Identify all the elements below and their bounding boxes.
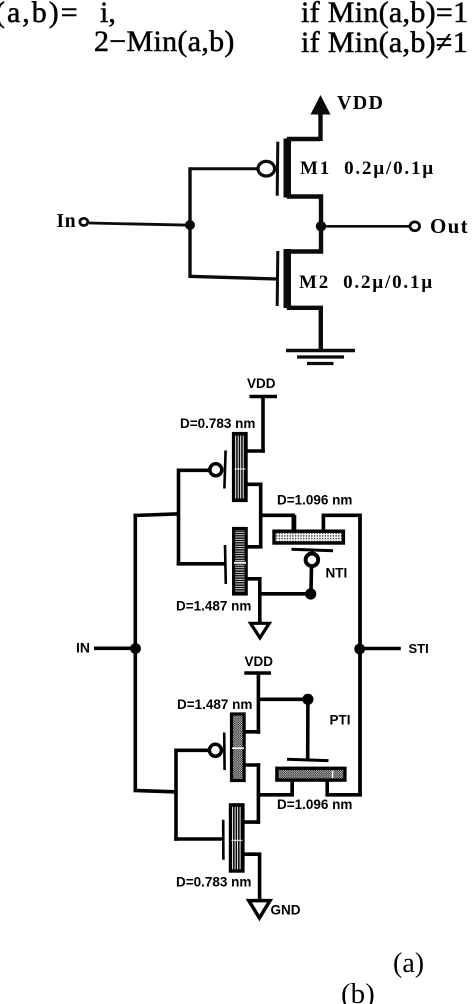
wire Q1 drain stub bbox=[246, 482, 263, 486]
svg-text:if Min(a,b)=1: if Min(a,b)=1 bbox=[301, 0, 468, 29]
Out terminal circle bbox=[410, 222, 420, 231]
transistor Q4 CNT channel D=0.783nm lower bbox=[230, 805, 243, 871]
svg-text:D=0.783 nm: D=0.783 nm bbox=[176, 874, 251, 889]
wire M2 source stub bbox=[289, 305, 321, 351]
svg-text:IN: IN bbox=[76, 640, 90, 656]
svg-text:Out: Out bbox=[430, 214, 469, 238]
svg-text:VDD: VDD bbox=[337, 92, 384, 114]
ground symbol bbox=[286, 349, 355, 353]
wire M1 drain stub bbox=[289, 194, 321, 226]
pass transistor PTI channel D=1.096nm bbox=[277, 768, 345, 780]
wire VDD stem bbox=[318, 112, 322, 141]
wire Q3 drain stub bbox=[244, 763, 260, 767]
svg-text:D=0.783 nm: D=0.783 nm bbox=[180, 416, 255, 431]
transistor M2 channel bar bbox=[284, 249, 292, 308]
transistor M2 gate bar bbox=[276, 251, 280, 306]
wire branch VDD to PTI gate bbox=[257, 697, 308, 701]
svg-text:D=1.487 nm: D=1.487 nm bbox=[177, 697, 252, 712]
svg-text:M2 0.2µ/0.1µ: M2 0.2µ/0.1µ bbox=[299, 272, 434, 293]
svg-text:VDD: VDD bbox=[245, 654, 274, 669]
wire bubble to input tree lower bbox=[176, 748, 210, 752]
wire Q4 drain stub bbox=[244, 820, 260, 824]
wire NTI left top stub bbox=[293, 515, 297, 530]
pass transistor NTI channel D=1.096nm bbox=[274, 531, 343, 543]
wire M2 gate bbox=[189, 276, 278, 279]
svg-text:PTI: PTI bbox=[330, 713, 351, 728]
wire In node to M1 bubble bbox=[190, 167, 258, 170]
wire branch to NTI left bbox=[259, 515, 293, 531]
In terminal circle bbox=[80, 218, 88, 225]
Q4 gate bar bbox=[222, 820, 225, 860]
svg-text:GND: GND bbox=[271, 903, 301, 918]
wire PTI bubble-less gate stem bbox=[306, 699, 310, 758]
transistor Q3 CNT channel D=1.487nm lower bbox=[232, 714, 245, 781]
Q3 gate bar bbox=[223, 733, 226, 771]
wire NTI right top stub bbox=[323, 515, 361, 529]
node In junction dot bbox=[185, 220, 195, 230]
svg-text:NTI: NTI bbox=[326, 566, 348, 581]
Q1 gate bar bbox=[224, 450, 225, 488]
node PTI gate junction dot bbox=[302, 694, 313, 705]
svg-text:if Min(a,b)≠1: if Min(a,b)≠1 bbox=[301, 26, 468, 59]
wire IN lead bbox=[94, 646, 137, 650]
wire input branch from IN rail bbox=[134, 514, 181, 516]
wire Q2 drain stub bbox=[246, 545, 263, 549]
wire PTI right bottom stub bbox=[327, 781, 362, 795]
wire Q3 source stub bbox=[244, 730, 260, 734]
wire bubble to input tree bbox=[179, 468, 210, 472]
wire source to NTI gate junction bbox=[258, 592, 311, 596]
svg-text:(b): (b) bbox=[341, 978, 375, 1004]
node IN junction dot bbox=[130, 643, 141, 654]
node NTI gate junction dot bbox=[305, 588, 316, 599]
wire In vertical bus bbox=[188, 167, 191, 277]
svg-text:VDD: VDD bbox=[247, 376, 276, 391]
node Out junction dot bbox=[316, 221, 326, 231]
wire Q4 source stub bbox=[244, 854, 260, 901]
wire Q4 gate bbox=[174, 837, 224, 841]
svg-text:M1 0.2µ/0.1µ: M1 0.2µ/0.1µ bbox=[300, 158, 435, 179]
NTI gate line bbox=[292, 549, 334, 551]
ground arrow upper inverter bbox=[251, 623, 270, 638]
wire Q2 source stub bbox=[246, 579, 260, 624]
svg-text:D=1.096 nm: D=1.096 nm bbox=[277, 797, 352, 812]
wire input tree vertical lower bbox=[174, 749, 178, 841]
wire branch to PTI left bbox=[257, 779, 293, 795]
wire M1 source stub bbox=[289, 139, 321, 143]
transistor M1 channel bar bbox=[284, 139, 292, 198]
PTI gate line bbox=[287, 759, 329, 760]
transistor M1 gate bar bbox=[276, 142, 280, 196]
Q3 gate bubble bbox=[209, 744, 221, 756]
wire VDD tee upper bbox=[250, 395, 278, 398]
wire input tree vertical upper bbox=[177, 469, 181, 566]
VDD power arrow bbox=[311, 95, 331, 115]
wire NTI bubble stem bbox=[309, 566, 313, 593]
wire In horizontal bbox=[89, 223, 191, 225]
Q1 gate bubble bbox=[210, 464, 222, 476]
transistor Q2 CNT channel D=1.487nm bbox=[234, 529, 247, 595]
NTI gate bubble bbox=[306, 554, 319, 567]
node STI junction dot bbox=[354, 644, 365, 655]
svg-text:D=1.096 nm: D=1.096 nm bbox=[277, 493, 352, 508]
Q2 gate bar bbox=[224, 545, 227, 584]
wire M2 drain stub bbox=[289, 228, 321, 254]
wire Q2 gate bbox=[177, 562, 226, 566]
M1 gate bubble bbox=[258, 161, 275, 176]
wire STI lead bbox=[360, 647, 401, 651]
wire inverter-2 output vertical bbox=[257, 763, 261, 824]
wire inverter-1 output vertical bbox=[259, 483, 263, 549]
svg-text:In: In bbox=[57, 211, 77, 232]
ground arrow GND bbox=[249, 901, 270, 918]
transistor Q1 CNT channel D=0.783nm bbox=[234, 434, 247, 501]
svg-text:2−Min(a,b): 2−Min(a,b) bbox=[94, 25, 235, 58]
wire Q1 source stub bbox=[246, 449, 265, 453]
svg-text:(a,b)=: (a,b)= bbox=[0, 0, 80, 29]
wire PTI left bottom stub bbox=[290, 781, 294, 795]
svg-text:(a): (a) bbox=[393, 948, 424, 979]
svg-text:D=1.487 nm: D=1.487 nm bbox=[176, 599, 251, 614]
wire input branch lower from IN rail bbox=[134, 790, 178, 792]
wire Out horizontal bbox=[321, 225, 411, 228]
wire IN rail bbox=[134, 514, 138, 792]
svg-text:STI: STI bbox=[409, 641, 429, 656]
wire VDD tee lower bbox=[244, 671, 271, 674]
wire STI rail bbox=[358, 514, 362, 797]
